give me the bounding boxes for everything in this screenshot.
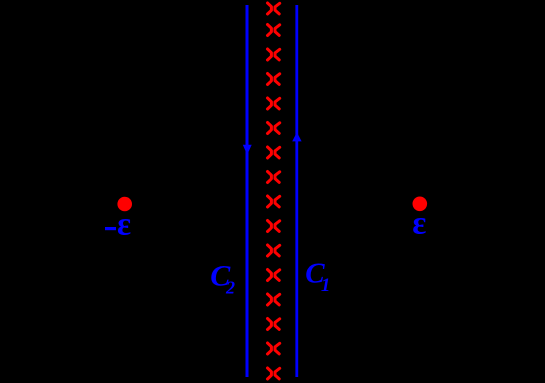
- svg-text:ε: ε: [412, 206, 426, 242]
- svg-text:ε: ε: [117, 207, 131, 243]
- svg-text:2: 2: [225, 277, 235, 297]
- svg-text:1: 1: [321, 275, 331, 296]
